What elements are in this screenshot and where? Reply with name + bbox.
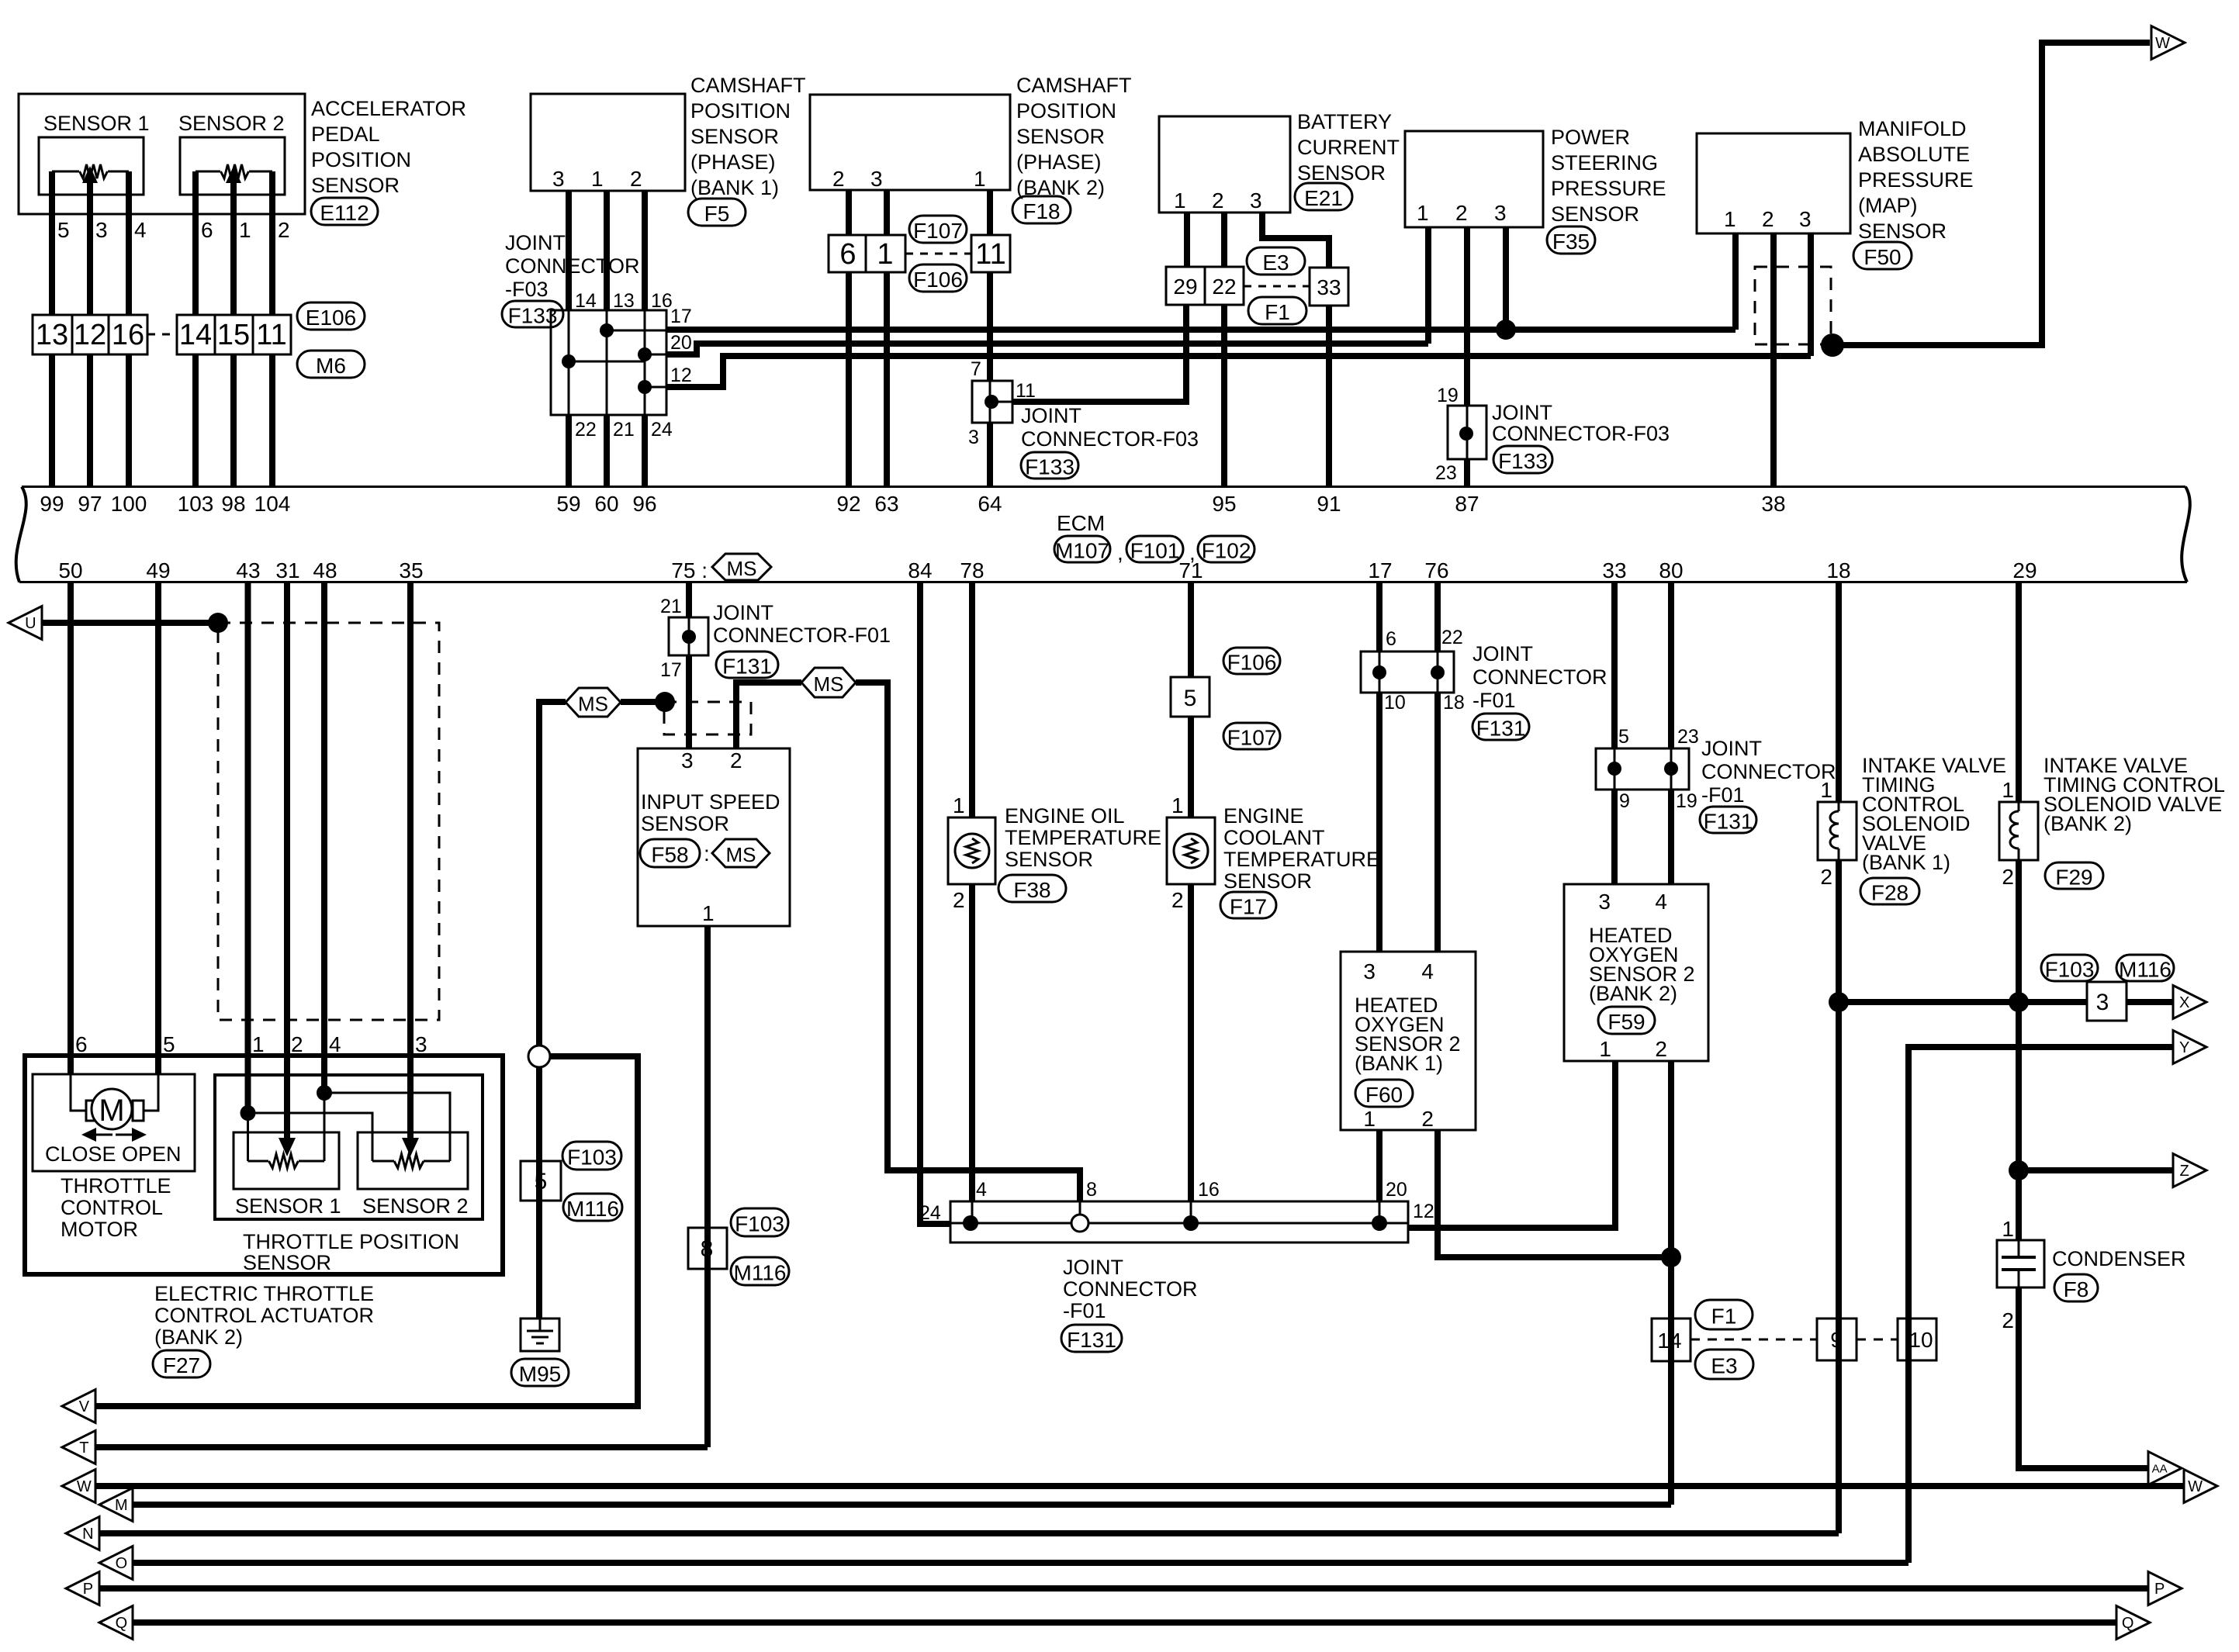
oil temp pin2 wire to connector 4 — [969, 884, 975, 1201]
svg-text:F59: F59 — [1607, 1010, 1645, 1034]
svg-text:19: 19 — [1437, 385, 1459, 406]
svg-text:1: 1 — [877, 238, 893, 271]
hexagon to shield dot wire — [621, 699, 665, 705]
svg-text:F103: F103 — [2045, 958, 2095, 982]
svg-text:3: 3 — [415, 1032, 427, 1056]
svg-text:CONNECTOR-F03: CONNECTOR-F03 — [1021, 427, 1199, 451]
F60 pin1 wire to connector 20 — [1376, 1130, 1383, 1201]
motor terminal right — [133, 1101, 144, 1121]
svg-text:17: 17 — [670, 306, 692, 327]
MAP pin1 wire — [1732, 233, 1739, 330]
TPS pot2 wiper arrow — [402, 1138, 419, 1156]
svg-text:96: 96 — [632, 492, 656, 516]
svg-text:8: 8 — [1086, 1179, 1097, 1201]
wire shield to V line — [95, 1056, 638, 1406]
svg-text:M107: M107 — [1055, 539, 1109, 563]
svg-text:1: 1 — [1363, 1107, 1376, 1131]
X line junction dot F29 — [2009, 992, 2029, 1012]
svg-text:59: 59 — [556, 492, 580, 516]
svg-text:2: 2 — [278, 218, 290, 242]
svg-text:ACCELERATOR: ACCELERATOR — [311, 97, 466, 120]
svg-text:F5: F5 — [704, 202, 730, 226]
open junction 8 — [1071, 1215, 1088, 1232]
svg-text:24: 24 — [651, 419, 673, 441]
svg-text:1: 1 — [1174, 188, 1186, 213]
motor wires — [71, 1074, 86, 1111]
wire ECM17 to F01D — [1376, 583, 1383, 651]
svg-text:(BANK 2): (BANK 2) — [154, 1325, 243, 1349]
svg-text:(PHASE): (PHASE) — [1016, 150, 1102, 174]
camshaft b2 wires to ECM — [846, 272, 852, 487]
white circle junction — [536, 1046, 542, 1066]
svg-text:98: 98 — [221, 492, 245, 516]
svg-text:(BANK 1): (BANK 1) — [690, 176, 779, 199]
connector box 5 F103/M116 — [521, 1161, 561, 1201]
svg-text:CONNECTOR-F01: CONNECTOR-F01 — [713, 624, 891, 647]
connector box 11 F107/F106 — [971, 235, 1010, 272]
svg-text:W: W — [77, 1478, 92, 1495]
svg-text:64: 64 — [978, 492, 1002, 516]
svg-text:ELECTRIC THROTTLE: ELECTRIC THROTTLE — [154, 1282, 374, 1305]
svg-text:22: 22 — [575, 419, 597, 441]
svg-text:F17: F17 — [1230, 895, 1267, 919]
M6 oval — [297, 351, 365, 378]
svg-text:SENSOR: SENSOR — [1223, 869, 1312, 893]
F5 oval — [688, 199, 746, 226]
wire ECM31 to TPS pin2 — [284, 583, 290, 1140]
ECM band top line — [22, 486, 2185, 488]
svg-text:3: 3 — [1250, 188, 1262, 213]
svg-text:F131: F131 — [1476, 717, 1526, 741]
svg-text:F1: F1 — [1265, 300, 1290, 324]
E106 oval — [297, 302, 365, 330]
svg-text:43: 43 — [236, 558, 260, 582]
svg-text:CLOSE OPEN: CLOSE OPEN — [45, 1142, 182, 1166]
svg-text:76: 76 — [1424, 558, 1448, 582]
svg-text:3: 3 — [1598, 890, 1611, 914]
svg-text:COOLANT: COOLANT — [1223, 826, 1325, 849]
E3 oval bottom — [1695, 1350, 1753, 1379]
svg-text:84: 84 — [908, 558, 932, 582]
svg-text:3: 3 — [870, 167, 883, 191]
throttle position sensor box — [215, 1075, 483, 1219]
intake valve timing control solenoid valve bank1 F28 — [1818, 802, 1857, 860]
M116 oval right — [2116, 955, 2174, 981]
svg-text:2: 2 — [1421, 1107, 1434, 1131]
svg-text:(BANK 2): (BANK 2) — [2043, 812, 2132, 835]
svg-text:1: 1 — [1599, 1037, 1611, 1061]
arrow Z — [2173, 1154, 2206, 1187]
svg-text:CAMSHAFT: CAMSHAFT — [690, 74, 806, 97]
electric throttle control actuator box F27 — [25, 1056, 503, 1274]
TPS pot2 zigzag — [394, 1154, 424, 1168]
MS hexagon shield left — [566, 688, 621, 717]
arrow N — [66, 1517, 99, 1550]
svg-text:F131: F131 — [1704, 810, 1753, 834]
svg-text:E112: E112 — [320, 201, 369, 225]
svg-text:100: 100 — [111, 492, 147, 516]
wire pin1 — [230, 180, 237, 315]
svg-text:JOINT: JOINT — [505, 231, 566, 254]
svg-text:SENSOR: SENSOR — [1005, 848, 1093, 871]
condenser box F8 — [1997, 1240, 2044, 1287]
arrow Y — [2173, 1031, 2206, 1064]
throttle motor circle M — [92, 1089, 132, 1129]
svg-text:78: 78 — [960, 558, 984, 582]
TPS pin4 branch to sensor2 — [324, 1093, 450, 1161]
wire pin3 — [87, 180, 93, 315]
ECM band left break edge — [16, 487, 26, 582]
svg-text:33: 33 — [1317, 275, 1341, 299]
arrow W left — [62, 1470, 95, 1503]
wire pin2 — [269, 171, 275, 315]
arrow P right — [2148, 1572, 2182, 1605]
wire shield ground — [536, 1066, 542, 1318]
camshaft position sensor (phase) bank1 box F5 — [531, 94, 685, 191]
MAP shield dashed box — [1755, 267, 1831, 344]
svg-text::: : — [704, 842, 710, 866]
battery pin1 wire — [1184, 213, 1190, 267]
svg-text:18: 18 — [1826, 558, 1850, 582]
MAP pin3 wire — [1808, 233, 1814, 356]
ECM connector oval F101 — [1126, 536, 1183, 562]
P line — [99, 1585, 2149, 1592]
svg-text:4: 4 — [1421, 959, 1434, 983]
svg-text:BATTERY: BATTERY — [1297, 110, 1392, 133]
svg-text:11: 11 — [256, 319, 286, 351]
wire ECM48 to TPS pin4 — [321, 583, 327, 1093]
svg-text:-F01: -F01 — [1472, 689, 1516, 712]
svg-text:(BANK 2): (BANK 2) — [1589, 982, 1677, 1005]
svg-text:F133: F133 — [1025, 455, 1075, 479]
svg-text:P: P — [2154, 1581, 2165, 1598]
svg-text:2: 2 — [1212, 188, 1224, 213]
svg-text:1: 1 — [1724, 207, 1736, 231]
shield drain wire to W arrow — [1832, 43, 2150, 345]
camshaft position sensor (phase) bank2 box F18 — [810, 95, 1010, 190]
ECM connector oval F102 — [1198, 536, 1254, 562]
svg-text:JOINT: JOINT — [1701, 737, 1762, 760]
wire ECM33 to F01G — [1611, 583, 1618, 748]
svg-text:THROTTLE: THROTTLE — [61, 1174, 171, 1198]
svg-text:F133: F133 — [1498, 449, 1548, 473]
svg-text:12: 12 — [670, 365, 692, 386]
ground line 12 to MAP pin3 — [666, 356, 1811, 387]
F59 pin2 wire to M line — [1668, 1061, 1674, 1257]
svg-text:29: 29 — [2012, 558, 2037, 582]
svg-text:80: 80 — [1659, 558, 1683, 582]
svg-text:CONNECTOR: CONNECTOR — [505, 254, 640, 278]
wire ECM80 to F01G — [1668, 583, 1674, 748]
svg-text:V: V — [79, 1398, 90, 1415]
svg-text:97: 97 — [78, 492, 102, 516]
svg-text:13: 13 — [613, 290, 635, 312]
svg-text:F106: F106 — [1227, 651, 1277, 675]
svg-text:TEMPERATURE: TEMPERATURE — [1223, 848, 1380, 871]
arrow Q left — [99, 1606, 133, 1640]
svg-text:F38: F38 — [1013, 878, 1050, 902]
svg-text:M116: M116 — [566, 1197, 619, 1221]
connector box 14 — [177, 315, 215, 354]
svg-text:SENSOR 1: SENSOR 1 — [43, 112, 150, 135]
dashes 14 to 9 — [1690, 1339, 1817, 1341]
engine oil temperature sensor box F38 — [948, 817, 995, 884]
F50 oval — [1853, 242, 1912, 269]
E21 oval — [1295, 183, 1352, 210]
svg-text:F133: F133 — [508, 304, 558, 328]
O line — [133, 1560, 1909, 1566]
svg-text:SENSOR 1: SENSOR 1 — [235, 1194, 341, 1218]
svg-text:13: 13 — [36, 319, 68, 351]
sensor 2 inner box — [180, 137, 285, 195]
svg-text:60: 60 — [594, 492, 618, 516]
arrow P left — [66, 1572, 99, 1605]
svg-text:29: 29 — [1173, 275, 1197, 299]
svg-text:3: 3 — [2096, 990, 2109, 1015]
svg-text:Y: Y — [2179, 1039, 2189, 1056]
svg-text:STEERING: STEERING — [1551, 151, 1658, 175]
battery current sensor box E21 — [1159, 116, 1290, 213]
svg-text:F35: F35 — [1552, 230, 1590, 254]
F38 oval — [998, 875, 1066, 902]
camshaft b2 wires upper — [846, 190, 852, 235]
ECM band bottom line — [19, 581, 2187, 583]
MS hexagon pin2 — [801, 668, 856, 697]
battery pin3 wire to ECM 91 — [1326, 306, 1332, 487]
camshaft b2 pin1 wire to F133B — [987, 272, 993, 381]
svg-text:POSITION: POSITION — [311, 148, 411, 171]
arrow W right — [2184, 1470, 2217, 1503]
F106 oval — [909, 264, 967, 292]
svg-text:F27: F27 — [163, 1353, 200, 1377]
svg-text:JOINT: JOINT — [1492, 401, 1552, 424]
svg-text:4: 4 — [329, 1032, 341, 1056]
M116 oval left — [563, 1194, 622, 1221]
svg-text:M95: M95 — [519, 1362, 561, 1386]
potentiometer wiper sensor 1 — [82, 166, 98, 183]
svg-text:6: 6 — [75, 1032, 88, 1056]
svg-text:33: 33 — [1602, 558, 1626, 582]
svg-text:SENSOR: SENSOR — [1297, 161, 1386, 185]
svg-text:50: 50 — [58, 558, 82, 582]
svg-text:M116: M116 — [734, 1261, 787, 1285]
svg-text:M6: M6 — [316, 354, 346, 378]
manifold absolute pressure sensor box F50 — [1697, 133, 1850, 233]
svg-text:6: 6 — [839, 238, 856, 271]
potentiometer sensor 1 — [80, 164, 108, 178]
svg-text:(MAP): (MAP) — [1858, 194, 1918, 217]
svg-text:SENSOR: SENSOR — [1858, 219, 1947, 243]
svg-text:MS: MS — [814, 672, 844, 696]
svg-text:1: 1 — [2002, 1217, 2014, 1241]
camshaft b2 pin1 wire to ECM 64 — [987, 423, 993, 487]
svg-text:9: 9 — [1830, 1328, 1843, 1352]
svg-text:SENSOR: SENSOR — [243, 1251, 331, 1274]
svg-text:M: M — [115, 1497, 128, 1514]
F18 oval — [1012, 196, 1071, 223]
svg-text:POSITION: POSITION — [690, 99, 791, 123]
X line junction dot F28 — [1829, 992, 1849, 1012]
svg-text:71: 71 — [1178, 558, 1203, 582]
svg-text:21: 21 — [660, 596, 682, 617]
svg-text:87: 87 — [1455, 492, 1479, 516]
junction dot 20 — [1372, 1215, 1387, 1231]
svg-text:5: 5 — [1618, 726, 1629, 748]
ECM connector oval M107 — [1054, 536, 1110, 562]
svg-text:F50: F50 — [1864, 245, 1901, 269]
F28 oval — [1860, 878, 1919, 904]
svg-text:-F01: -F01 — [1701, 783, 1745, 807]
connector box 16 — [109, 315, 147, 354]
svg-text:F103: F103 — [735, 1212, 784, 1236]
M116 oval mid — [731, 1257, 789, 1285]
svg-text:CAMSHAFT: CAMSHAFT — [1016, 74, 1132, 97]
shield junction dot input speed — [655, 692, 675, 712]
arrow U — [9, 607, 42, 640]
joint connector F03 F133 box B — [972, 381, 1012, 423]
svg-text:ENGINE: ENGINE — [1223, 804, 1304, 828]
svg-text:2: 2 — [1455, 201, 1468, 225]
PS pin2 wire to ECM 87 — [1464, 227, 1470, 406]
wire hexagon to joint connector 8 — [856, 683, 1080, 1201]
F28 pin2 wire down — [1836, 860, 1842, 1533]
TPS pot1 wiper arrow — [279, 1138, 296, 1156]
wire ECM76 to F01D — [1434, 583, 1441, 651]
potentiometer sensor 2 — [221, 164, 249, 178]
W line — [95, 1483, 2185, 1489]
svg-text:2: 2 — [1820, 865, 1832, 889]
TPS sensor1 box — [234, 1132, 339, 1189]
arrow W top right — [2151, 26, 2185, 60]
arrow O — [99, 1547, 133, 1580]
wire 17 to input speed pin3 — [686, 655, 692, 748]
PS pin3 wire — [1503, 227, 1509, 330]
F17 oval — [1220, 892, 1276, 918]
svg-text:ENGINE OIL: ENGINE OIL — [1005, 804, 1125, 828]
F133B junction dot — [985, 395, 998, 409]
svg-text:63: 63 — [874, 492, 898, 516]
connector box 6 F107/F106 — [829, 235, 866, 272]
svg-text:CONTROL ACTUATOR: CONTROL ACTUATOR — [154, 1304, 374, 1327]
intake valve timing control solenoid valve bank2 F29 — [1999, 802, 2038, 860]
wire pin2 hexagon — [736, 683, 801, 748]
svg-text:F58: F58 — [651, 843, 688, 867]
svg-text:F107: F107 — [1227, 726, 1277, 750]
svg-text:92: 92 — [836, 492, 860, 516]
svg-text:(PHASE): (PHASE) — [690, 150, 776, 174]
svg-text:F29: F29 — [2055, 866, 2092, 890]
joint connector F03 F133 box A — [551, 310, 666, 415]
dashes 9 to 10 — [1857, 1339, 1898, 1341]
wire 11 exit to battery pin1 — [1012, 305, 1186, 402]
F133C junction dot — [1459, 427, 1473, 441]
connector box 10 — [1898, 1318, 1936, 1360]
svg-text:CONNECTOR-F03: CONNECTOR-F03 — [1492, 422, 1670, 445]
svg-text:F131: F131 — [722, 655, 772, 679]
svg-text:2: 2 — [1655, 1037, 1667, 1061]
svg-text:Z: Z — [2180, 1163, 2189, 1180]
connector box 22 — [1205, 267, 1244, 305]
svg-text:6: 6 — [1386, 628, 1396, 650]
svg-text:16: 16 — [651, 290, 673, 312]
shield wire to hexagon — [539, 702, 566, 1046]
MS hexagon at pin 75 — [712, 554, 771, 580]
svg-text:7: 7 — [971, 358, 981, 380]
svg-text:M116: M116 — [2119, 958, 2172, 982]
svg-text:1: 1 — [1171, 793, 1184, 817]
connector box 9 — [1817, 1318, 1857, 1360]
wires connector to ECM — [49, 354, 55, 487]
svg-text:12: 12 — [74, 319, 106, 351]
TPS pin4 junction dot — [317, 1085, 332, 1101]
svg-text:5: 5 — [1184, 686, 1197, 711]
svg-text:22: 22 — [1212, 275, 1236, 299]
engine coolant temperature sensor box F17 — [1167, 817, 1215, 884]
svg-text:2: 2 — [291, 1032, 303, 1056]
wire ECM43 to TPS pin1 — [245, 583, 251, 1113]
Z line junction dot — [2009, 1160, 2029, 1180]
accelerator pedal position sensor box E112 — [19, 94, 305, 214]
svg-text:PRESSURE: PRESSURE — [1551, 177, 1666, 200]
motor terminal left — [86, 1101, 99, 1121]
svg-text:104: 104 — [254, 492, 291, 516]
connector box 13 — [33, 315, 72, 354]
svg-text:31: 31 — [275, 558, 299, 582]
svg-text:1: 1 — [953, 793, 965, 817]
connector box 8 F103/M116 — [688, 1228, 727, 1269]
arrow Q right — [2116, 1606, 2150, 1640]
svg-text:2: 2 — [832, 167, 845, 191]
svg-text:19: 19 — [1676, 790, 1697, 812]
Y line — [1909, 1047, 2173, 1563]
svg-text:SENSOR: SENSOR — [1016, 125, 1105, 148]
svg-text:SENSOR: SENSOR — [641, 812, 729, 835]
condenser pin2 wire to AA — [2019, 1287, 2149, 1468]
svg-text:E21: E21 — [1304, 186, 1343, 210]
svg-text:4: 4 — [134, 218, 147, 242]
svg-text:CONTROL: CONTROL — [61, 1196, 163, 1219]
svg-text:T: T — [79, 1439, 88, 1457]
svg-text:1: 1 — [252, 1032, 265, 1056]
svg-text:35: 35 — [399, 558, 423, 582]
svg-text:11: 11 — [1016, 380, 1036, 402]
junction dot 4 — [963, 1215, 978, 1231]
connector box 12 — [72, 315, 109, 354]
connector box 14 — [1652, 1318, 1690, 1361]
svg-text:F103: F103 — [567, 1146, 617, 1170]
svg-text:21: 21 — [613, 419, 635, 441]
heated oxygen sensor 2 bank1 box F60 — [1341, 952, 1476, 1130]
joint connector F03 F133 box C — [1448, 406, 1486, 459]
svg-text:103: 103 — [178, 492, 214, 516]
input speed sensor box F58 — [638, 748, 790, 926]
T line wire — [95, 1444, 708, 1450]
svg-text:CONDENSER: CONDENSER — [2052, 1247, 2186, 1270]
svg-text:CONNECTOR: CONNECTOR — [1701, 760, 1836, 783]
svg-text:3: 3 — [681, 748, 694, 772]
wire pin5 — [49, 171, 55, 315]
TPS sensor2 box — [358, 1132, 468, 1189]
F60 pin2 wire — [1438, 1130, 1671, 1257]
svg-text:F101: F101 — [1130, 539, 1180, 563]
connector box 33 — [1310, 268, 1348, 306]
joint connector F01 box D — [1361, 651, 1454, 693]
svg-text:F102: F102 — [1202, 539, 1251, 563]
svg-text:8: 8 — [701, 1236, 714, 1262]
N line — [99, 1530, 1839, 1536]
wire pin6 — [192, 171, 199, 315]
F131 oval D — [1472, 714, 1529, 740]
